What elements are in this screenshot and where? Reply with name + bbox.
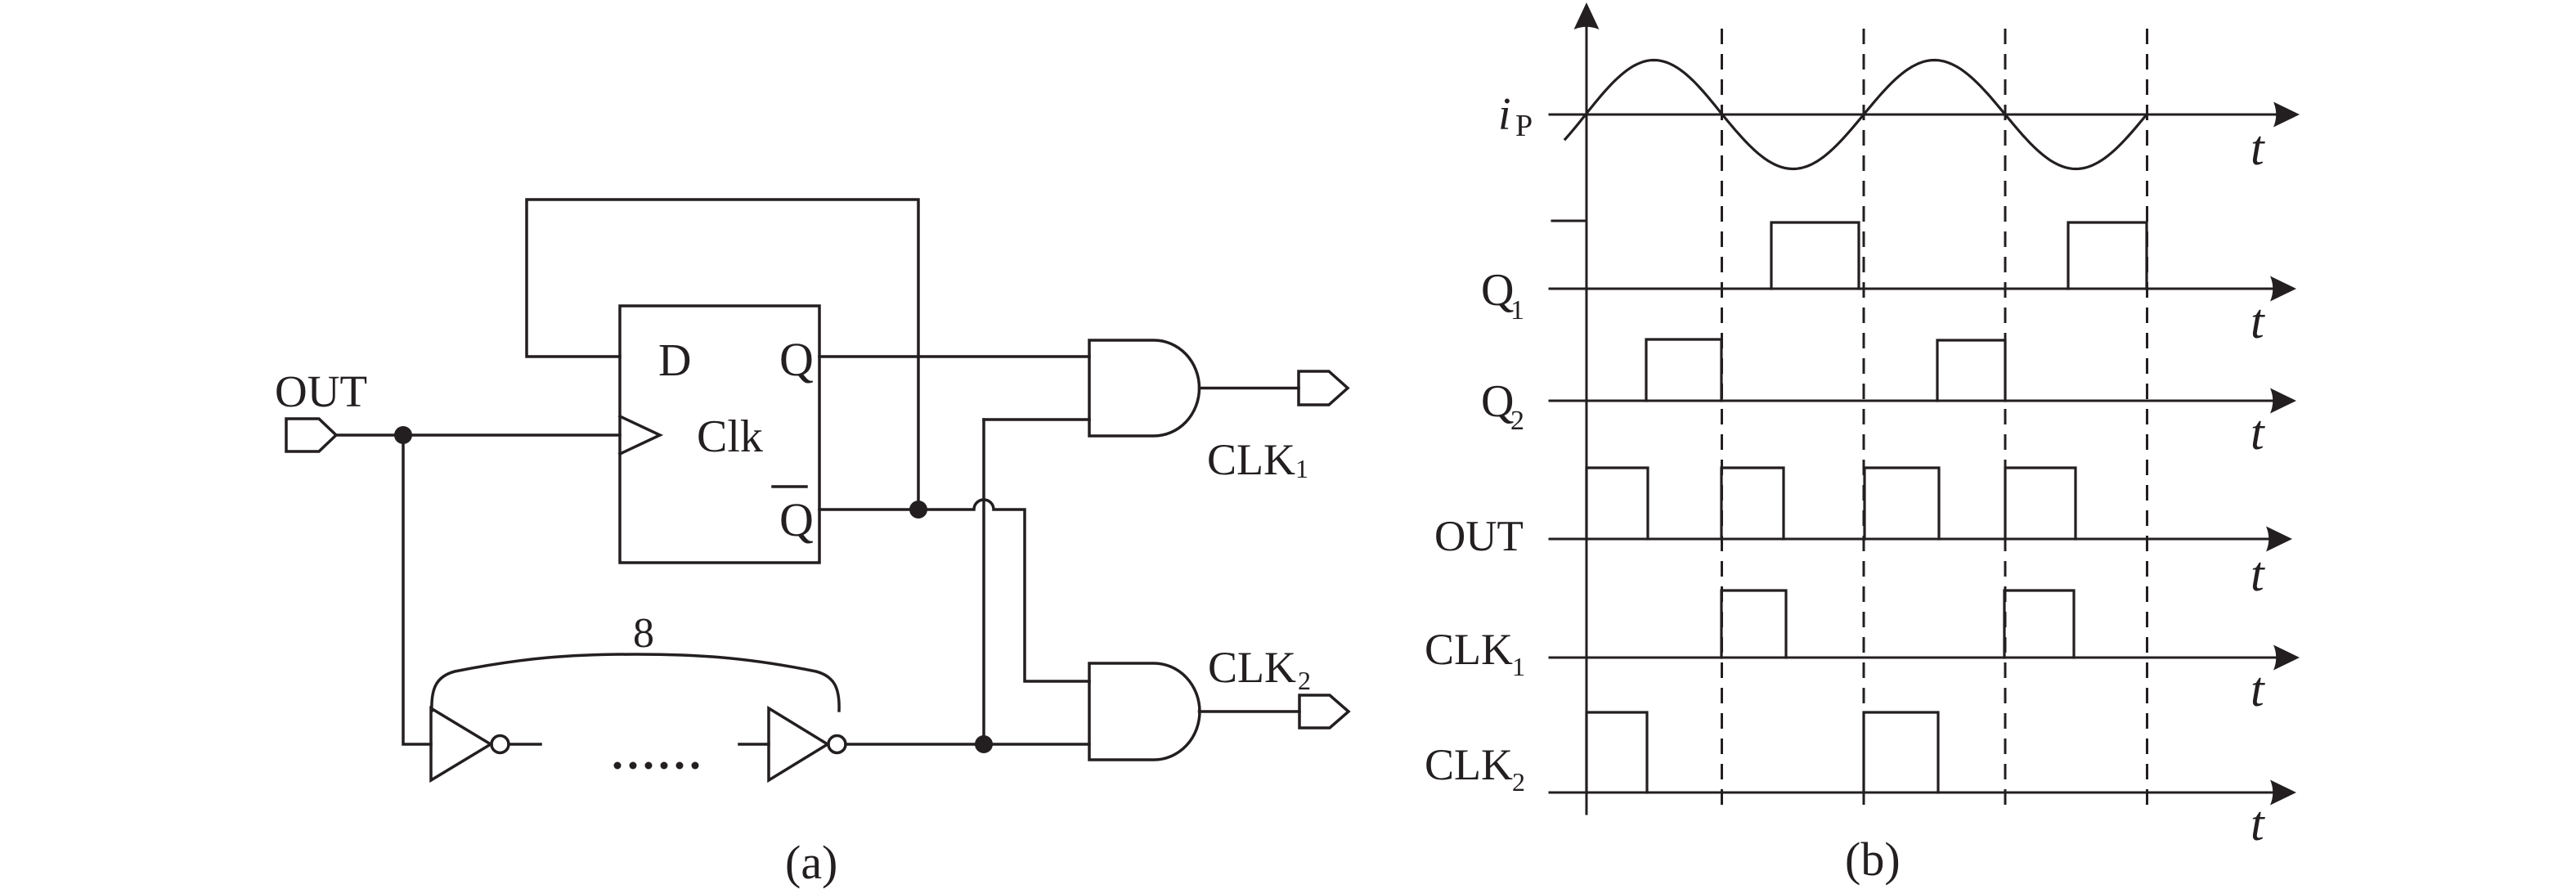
AND gate U3 xyxy=(1089,663,1200,760)
svg-text:OUT: OUT xyxy=(1434,513,1524,560)
arrowhead Q1 xyxy=(2270,276,2296,302)
waveform CLK2 pulse 1 xyxy=(1586,712,1647,792)
arrowhead axis top xyxy=(1574,2,1600,29)
svg-text:t: t xyxy=(2251,294,2265,348)
svg-text:t: t xyxy=(2251,406,2265,460)
svg-text:t: t xyxy=(2251,547,2265,601)
svg-text:(b): (b) xyxy=(1845,833,1901,886)
flip-flop U1 box xyxy=(620,306,819,563)
waveform Q1 pulse 1 xyxy=(1771,222,1859,289)
waveform CLK1 pulse 1 xyxy=(1721,590,1786,658)
svg-text:t: t xyxy=(2251,121,2265,175)
inverter N8 bubble xyxy=(828,736,846,753)
svg-text:P: P xyxy=(1515,109,1533,143)
axis Q2 xyxy=(1550,400,2273,402)
Qbar output wire with hop to AND2 input xyxy=(819,500,1089,681)
svg-text:t: t xyxy=(2251,662,2265,716)
waveform CLK2 pulse 2 xyxy=(1864,712,1938,792)
waveform OUT pulse 3 xyxy=(1865,468,1939,539)
svg-text:1: 1 xyxy=(1510,295,1524,326)
svg-text:1: 1 xyxy=(1295,454,1308,483)
waveform iP sine xyxy=(1565,61,2147,169)
svg-text:(a): (a) xyxy=(785,836,837,889)
axis iP xyxy=(1550,114,2277,116)
wire OUT to Clk pin xyxy=(336,433,620,437)
wire AND2 output xyxy=(1200,710,1300,713)
waveform CLK1 pulse 2 xyxy=(2004,590,2074,658)
waveform OUT pulse 1 xyxy=(1586,468,1648,539)
brace over inverter chain xyxy=(432,654,839,711)
svg-text:i: i xyxy=(1498,89,1511,140)
axis CLK1 xyxy=(1550,657,2277,659)
gridline t2 xyxy=(1863,29,1865,813)
arrowhead CLK2 xyxy=(2270,780,2296,806)
wire before inverter N8 xyxy=(739,743,769,746)
gridline t3 xyxy=(2004,29,2007,813)
svg-text:Q: Q xyxy=(779,333,814,386)
arrowhead CLK1 xyxy=(2273,645,2300,671)
junction node Qbar feedback xyxy=(909,501,927,519)
Q output wire to AND1 input xyxy=(819,355,1089,358)
wire AND1 output xyxy=(1200,387,1299,390)
svg-text:D: D xyxy=(658,335,691,386)
waveform OUT pulse 4 xyxy=(2005,468,2076,539)
svg-text:8: 8 xyxy=(633,610,654,657)
output port CLK2 xyxy=(1299,695,1349,728)
svg-text:Q: Q xyxy=(779,493,814,546)
wire inverter chain output to AND2 xyxy=(846,743,1089,746)
svg-text:Q: Q xyxy=(1481,265,1514,316)
feedback wire Qbar to D xyxy=(527,200,918,510)
waveform Q2 pulse 1 xyxy=(1646,339,1721,401)
svg-text:2: 2 xyxy=(1512,767,1525,797)
wire OUT junction down to inverter chain xyxy=(403,435,431,744)
axis OUT xyxy=(1550,538,2269,541)
waveform Q1 pulse 2 xyxy=(2068,222,2147,289)
svg-text:CLK: CLK xyxy=(1207,435,1295,484)
Qbar overline xyxy=(773,485,806,488)
gridline t4 xyxy=(2146,29,2148,813)
svg-text:2: 2 xyxy=(1510,406,1524,436)
waveform Q2 pulse 2 xyxy=(1937,340,2005,401)
gridline t1 xyxy=(1721,29,1723,813)
axis vertical xyxy=(1586,25,1588,814)
arrowhead OUT xyxy=(2266,527,2292,552)
svg-text:OUT: OUT xyxy=(275,366,367,416)
wire AND1 lower input xyxy=(984,418,1089,421)
svg-text:1: 1 xyxy=(1512,652,1525,681)
wire after inverter N1 xyxy=(509,743,541,746)
inverter N1 bubble xyxy=(491,736,509,753)
ellipsis dots inverter chain xyxy=(614,762,622,770)
svg-text:CLK: CLK xyxy=(1425,740,1513,789)
svg-text:t: t xyxy=(2251,797,2265,851)
axis Q1 xyxy=(1550,288,2273,290)
svg-text:Q: Q xyxy=(1481,376,1514,427)
svg-text:CLK: CLK xyxy=(1425,625,1513,674)
input port OUT xyxy=(286,419,336,451)
inverter N1 triangle xyxy=(431,708,491,780)
wire inverter output vertical to AND1 xyxy=(982,420,985,744)
inverter N8 triangle xyxy=(769,708,828,780)
svg-text:2: 2 xyxy=(1298,666,1311,695)
tick level 1 on Q1 xyxy=(1552,220,1586,222)
junction node OUT xyxy=(394,426,412,444)
AND gate U2 xyxy=(1089,340,1200,436)
clock edge triangle xyxy=(620,416,660,454)
axis CLK2 xyxy=(1550,792,2273,794)
svg-text:CLK: CLK xyxy=(1208,643,1296,692)
arrowhead Q2 xyxy=(2270,388,2296,414)
output port CLK1 xyxy=(1299,371,1348,405)
junction node inverter output xyxy=(975,735,993,753)
svg-text:Clk: Clk xyxy=(697,411,763,462)
waveform OUT pulse 2 xyxy=(1721,468,1784,539)
arrowhead iP xyxy=(2273,102,2300,128)
